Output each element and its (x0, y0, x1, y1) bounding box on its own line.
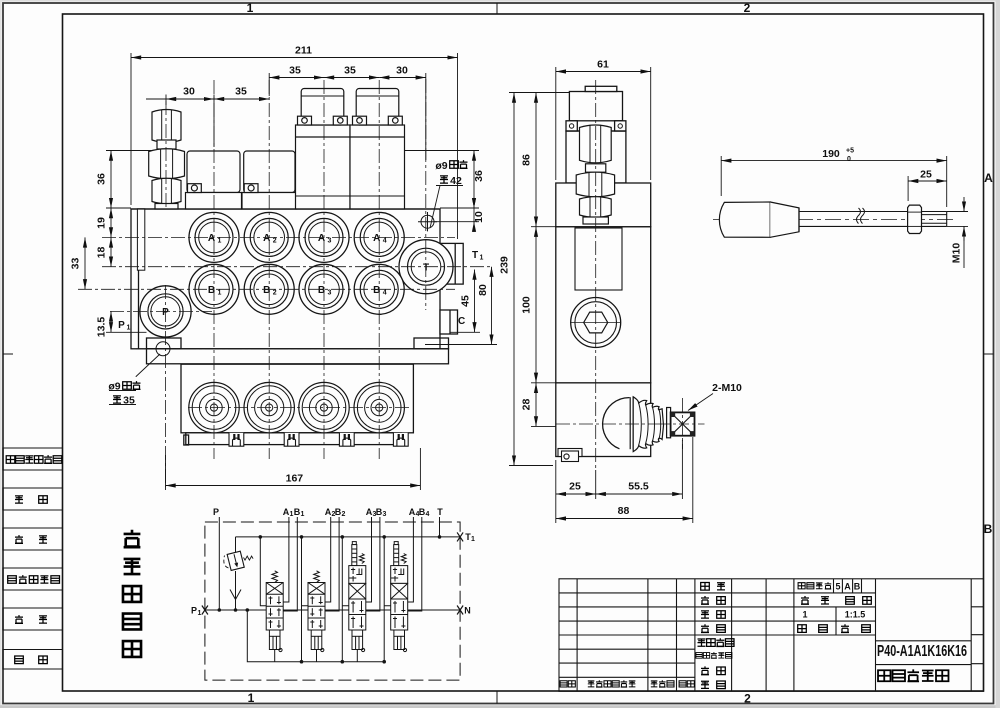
svg-text:1: 1 (802, 610, 807, 620)
svg-text:P: P (191, 606, 197, 616)
图样标记 (798, 582, 831, 589)
bellows (633, 397, 663, 452)
valve 2 (308, 571, 325, 652)
relief branch (235, 537, 237, 552)
A3 port boss (299, 212, 349, 262)
valve 3 (349, 542, 366, 652)
port labels (208, 233, 222, 245)
svg-text:3: 3 (328, 238, 332, 245)
leader o9 hole bottom: text (109, 354, 160, 405)
svg-text:167: 167 (286, 473, 304, 485)
svg-text:3: 3 (328, 290, 332, 297)
svg-text:211: 211 (295, 45, 312, 57)
label 借通用件登记 (6, 455, 62, 463)
top rail (236, 536, 461, 538)
relief valve hex stack (149, 110, 185, 210)
bottom view body (181, 364, 413, 445)
spool bore cover rect (575, 228, 622, 290)
svg-text:2: 2 (273, 238, 277, 245)
svg-text:5: 5 (835, 582, 840, 592)
side body main section (556, 227, 651, 383)
dimension 167 (166, 448, 421, 490)
dimension 211 (131, 53, 458, 239)
svg-text:T: T (472, 250, 478, 261)
main pressure line P1-N (205, 609, 460, 611)
bottom view spool bore 4 (354, 382, 404, 432)
2-M10 leader (688, 394, 713, 411)
left dims 36 19 18 33 13.5 (85, 151, 152, 333)
dim 61 (556, 67, 651, 180)
svg-text:35: 35 (235, 86, 247, 98)
schematic wiring (205, 517, 460, 662)
svg-text:1: 1 (218, 290, 222, 297)
svg-text:10: 10 (473, 211, 485, 223)
svg-text:T: T (437, 507, 443, 517)
carryover drop and bottom rail (247, 610, 384, 662)
scan edge shading top/left/bottom/right (0, 0, 1000, 2)
svg-text:55.5: 55.5 (628, 481, 649, 493)
svg-text:13.5: 13.5 (96, 317, 108, 338)
svg-text:100: 100 (521, 296, 533, 314)
v3 B3 line (366, 517, 380, 611)
A4 port boss (354, 212, 404, 262)
big caption 液压原理图 (123, 530, 141, 657)
label 日期 (15, 656, 48, 664)
boot clamp ring (667, 408, 671, 438)
svg-text:2: 2 (744, 1, 751, 15)
P port stub (218, 517, 220, 610)
svg-text:+5: +5 (846, 148, 854, 155)
mounting slot lugs (229, 433, 408, 446)
B4 port boss (354, 264, 404, 314)
svg-text:1: 1 (247, 1, 254, 15)
svg-text:4: 4 (383, 290, 387, 297)
B2 port boss (244, 264, 294, 314)
svg-text:36: 36 (473, 170, 485, 182)
row label 批准 (701, 681, 725, 689)
svg-text:42: 42 (450, 175, 462, 187)
A1 port boss (189, 212, 239, 262)
port X plugs P1 N T1 (202, 532, 463, 614)
svg-text:2: 2 (342, 511, 346, 518)
joint block with cross (671, 412, 695, 435)
共 张 第 张 (798, 624, 871, 632)
handle shaft (799, 212, 947, 227)
row label 审核 (701, 666, 725, 674)
right lower step block (414, 338, 449, 349)
row label 标准化检查 (696, 652, 732, 658)
side relief stack (576, 125, 614, 224)
v2 B2 line (325, 517, 339, 611)
T port boss (399, 240, 453, 294)
left lower step block (147, 338, 182, 349)
centerlines front view (78, 79, 492, 487)
bottom view spool bore 2 (244, 382, 294, 432)
svg-text:N: N (464, 606, 471, 616)
svg-text:88: 88 (618, 505, 630, 517)
svg-text:35: 35 (289, 65, 301, 77)
v2 A2 line (325, 517, 331, 602)
svg-text:28: 28 (521, 399, 533, 411)
boot rim (630, 397, 633, 450)
svg-text:30: 30 (183, 86, 195, 98)
v4 B4 line (408, 517, 422, 611)
shaft break mark (857, 208, 865, 224)
svg-text:2-M10: 2-M10 (712, 382, 742, 394)
label 校描 (15, 535, 47, 543)
relief valve symbol (227, 551, 244, 570)
label 签字 (15, 615, 47, 623)
svg-text:80: 80 (477, 284, 489, 296)
thread stub (922, 215, 947, 224)
dim 190 +5/0 (721, 156, 947, 207)
v1 A1 line (283, 517, 289, 602)
column lines (577, 579, 794, 692)
svg-text:B: B (854, 582, 861, 592)
bottom view spool bore 3 (299, 382, 349, 432)
right section internal lines (876, 579, 972, 692)
svg-text:61: 61 (597, 59, 609, 71)
svg-text:2: 2 (744, 692, 751, 706)
handle centerline (713, 219, 954, 221)
svg-text:0: 0 (847, 156, 851, 163)
svg-text:M10: M10 (951, 243, 963, 264)
svg-text:35: 35 (123, 395, 135, 407)
valve 4 (391, 542, 408, 652)
svg-text:190: 190 (822, 148, 840, 160)
svg-text:45: 45 (460, 295, 472, 307)
svg-text:1: 1 (480, 255, 484, 262)
svg-text:P40-A1A1K16K16: P40-A1A1K16K16 (877, 643, 967, 660)
bottom view spool bore 1 (189, 382, 239, 432)
B1 port boss (189, 264, 239, 314)
side view centerlines (556, 80, 705, 470)
v4 left gutter (384, 537, 391, 662)
spool end cover small rect left (137, 209, 144, 270)
side plug boss circle with hex (571, 298, 621, 348)
svg-text:B: B (984, 522, 993, 536)
left margin block boxes (3, 448, 63, 669)
left end plate line (138, 209, 140, 349)
row labels 设计 制图 描图 校对 (701, 583, 726, 633)
svg-text:3: 3 (383, 511, 387, 518)
valve body main block (131, 209, 440, 349)
svg-text:25: 25 (920, 169, 932, 181)
label 旧底图总号 (8, 575, 60, 583)
svg-text:25: 25 (569, 481, 581, 493)
svg-text:A: A (844, 582, 851, 592)
zone divider ticks (496, 3, 498, 14)
table outline (559, 579, 984, 692)
dimension 30 35 upper left (146, 95, 269, 148)
svg-text:P: P (118, 320, 125, 331)
dims 25 55.5 88 bottom (556, 437, 693, 523)
bottom mounting plate (147, 349, 449, 364)
svg-text:19: 19 (96, 217, 108, 229)
svg-text:1: 1 (471, 536, 475, 543)
boot dome (603, 398, 630, 449)
body top edge redraw (131, 208, 440, 210)
svg-text:1: 1 (301, 511, 305, 518)
cap 1 (plain) (186, 151, 242, 209)
dimension 35 35 30 top (269, 73, 426, 160)
handle grip (719, 202, 799, 237)
svg-text:1:1.5: 1:1.5 (845, 610, 866, 620)
o9 hole bottom left (156, 342, 170, 356)
svg-text:239: 239 (499, 256, 511, 274)
A2 port boss (244, 212, 294, 262)
right side port tab T1 (440, 243, 463, 284)
side body lower section (556, 383, 651, 457)
svg-text:P: P (213, 507, 219, 517)
svg-text:1: 1 (198, 610, 202, 617)
svg-text:2: 2 (273, 290, 277, 297)
数量 比例 (801, 596, 871, 604)
bottom row 标记 更改内容或依据 更改人 日期 (560, 680, 694, 687)
spool risers (274, 650, 276, 662)
P port boss (140, 286, 191, 337)
svg-text:C: C (458, 316, 465, 327)
v2 left gutter (302, 537, 309, 662)
row label 工艺检查 (698, 638, 735, 646)
svg-text:1: 1 (218, 238, 222, 245)
dims 86 100 28 239 left (509, 93, 569, 466)
nut (908, 205, 922, 233)
part name 四联多路阀 (878, 669, 948, 681)
svg-text:30: 30 (396, 65, 408, 77)
leader o9 hole top: text (430, 186, 463, 229)
svg-text:33: 33 (70, 258, 82, 270)
right side port tab C (440, 310, 458, 334)
cap clamp screws left/right (566, 121, 577, 131)
svg-text:36: 36 (96, 173, 108, 185)
label 描图 (15, 496, 47, 504)
svg-text:35: 35 (344, 65, 356, 77)
check valve symbol (230, 590, 241, 600)
dim M10 (947, 197, 968, 268)
v3 A3 line (366, 517, 372, 602)
schematic enclosure (dashed) (205, 522, 460, 680)
svg-text:18: 18 (96, 247, 108, 259)
side body neck section (566, 131, 626, 183)
svg-text:4: 4 (426, 511, 430, 518)
dim 25 handle (908, 176, 947, 201)
B3 port boss (299, 264, 349, 314)
v1 B1 line (283, 517, 297, 611)
v4 A4 line (408, 517, 414, 602)
o9 through hole top right (418, 212, 437, 231)
full-width row lines left part (559, 593, 876, 677)
cap 3 (detent type) (296, 89, 351, 210)
svg-text:4: 4 (383, 238, 387, 245)
svg-text:86: 86 (521, 154, 533, 166)
junction dots (218, 535, 442, 663)
cap 4 (detent type) (350, 89, 405, 210)
cap 2 (plain) (242, 151, 297, 209)
svg-text:A: A (984, 171, 993, 185)
T port stub (439, 517, 441, 537)
svg-text:1: 1 (127, 325, 131, 332)
valve 1 (266, 571, 283, 652)
svg-text:ø9: ø9 (108, 381, 120, 393)
right dims 36 10 80 45 (405, 151, 498, 345)
side bottom foot (558, 449, 582, 462)
v1 left gutter (260, 537, 266, 606)
side body top cap (569, 92, 622, 121)
svg-text:ø9: ø9 (435, 160, 447, 172)
v3 left gutter (342, 537, 349, 662)
svg-text:1: 1 (248, 691, 255, 705)
